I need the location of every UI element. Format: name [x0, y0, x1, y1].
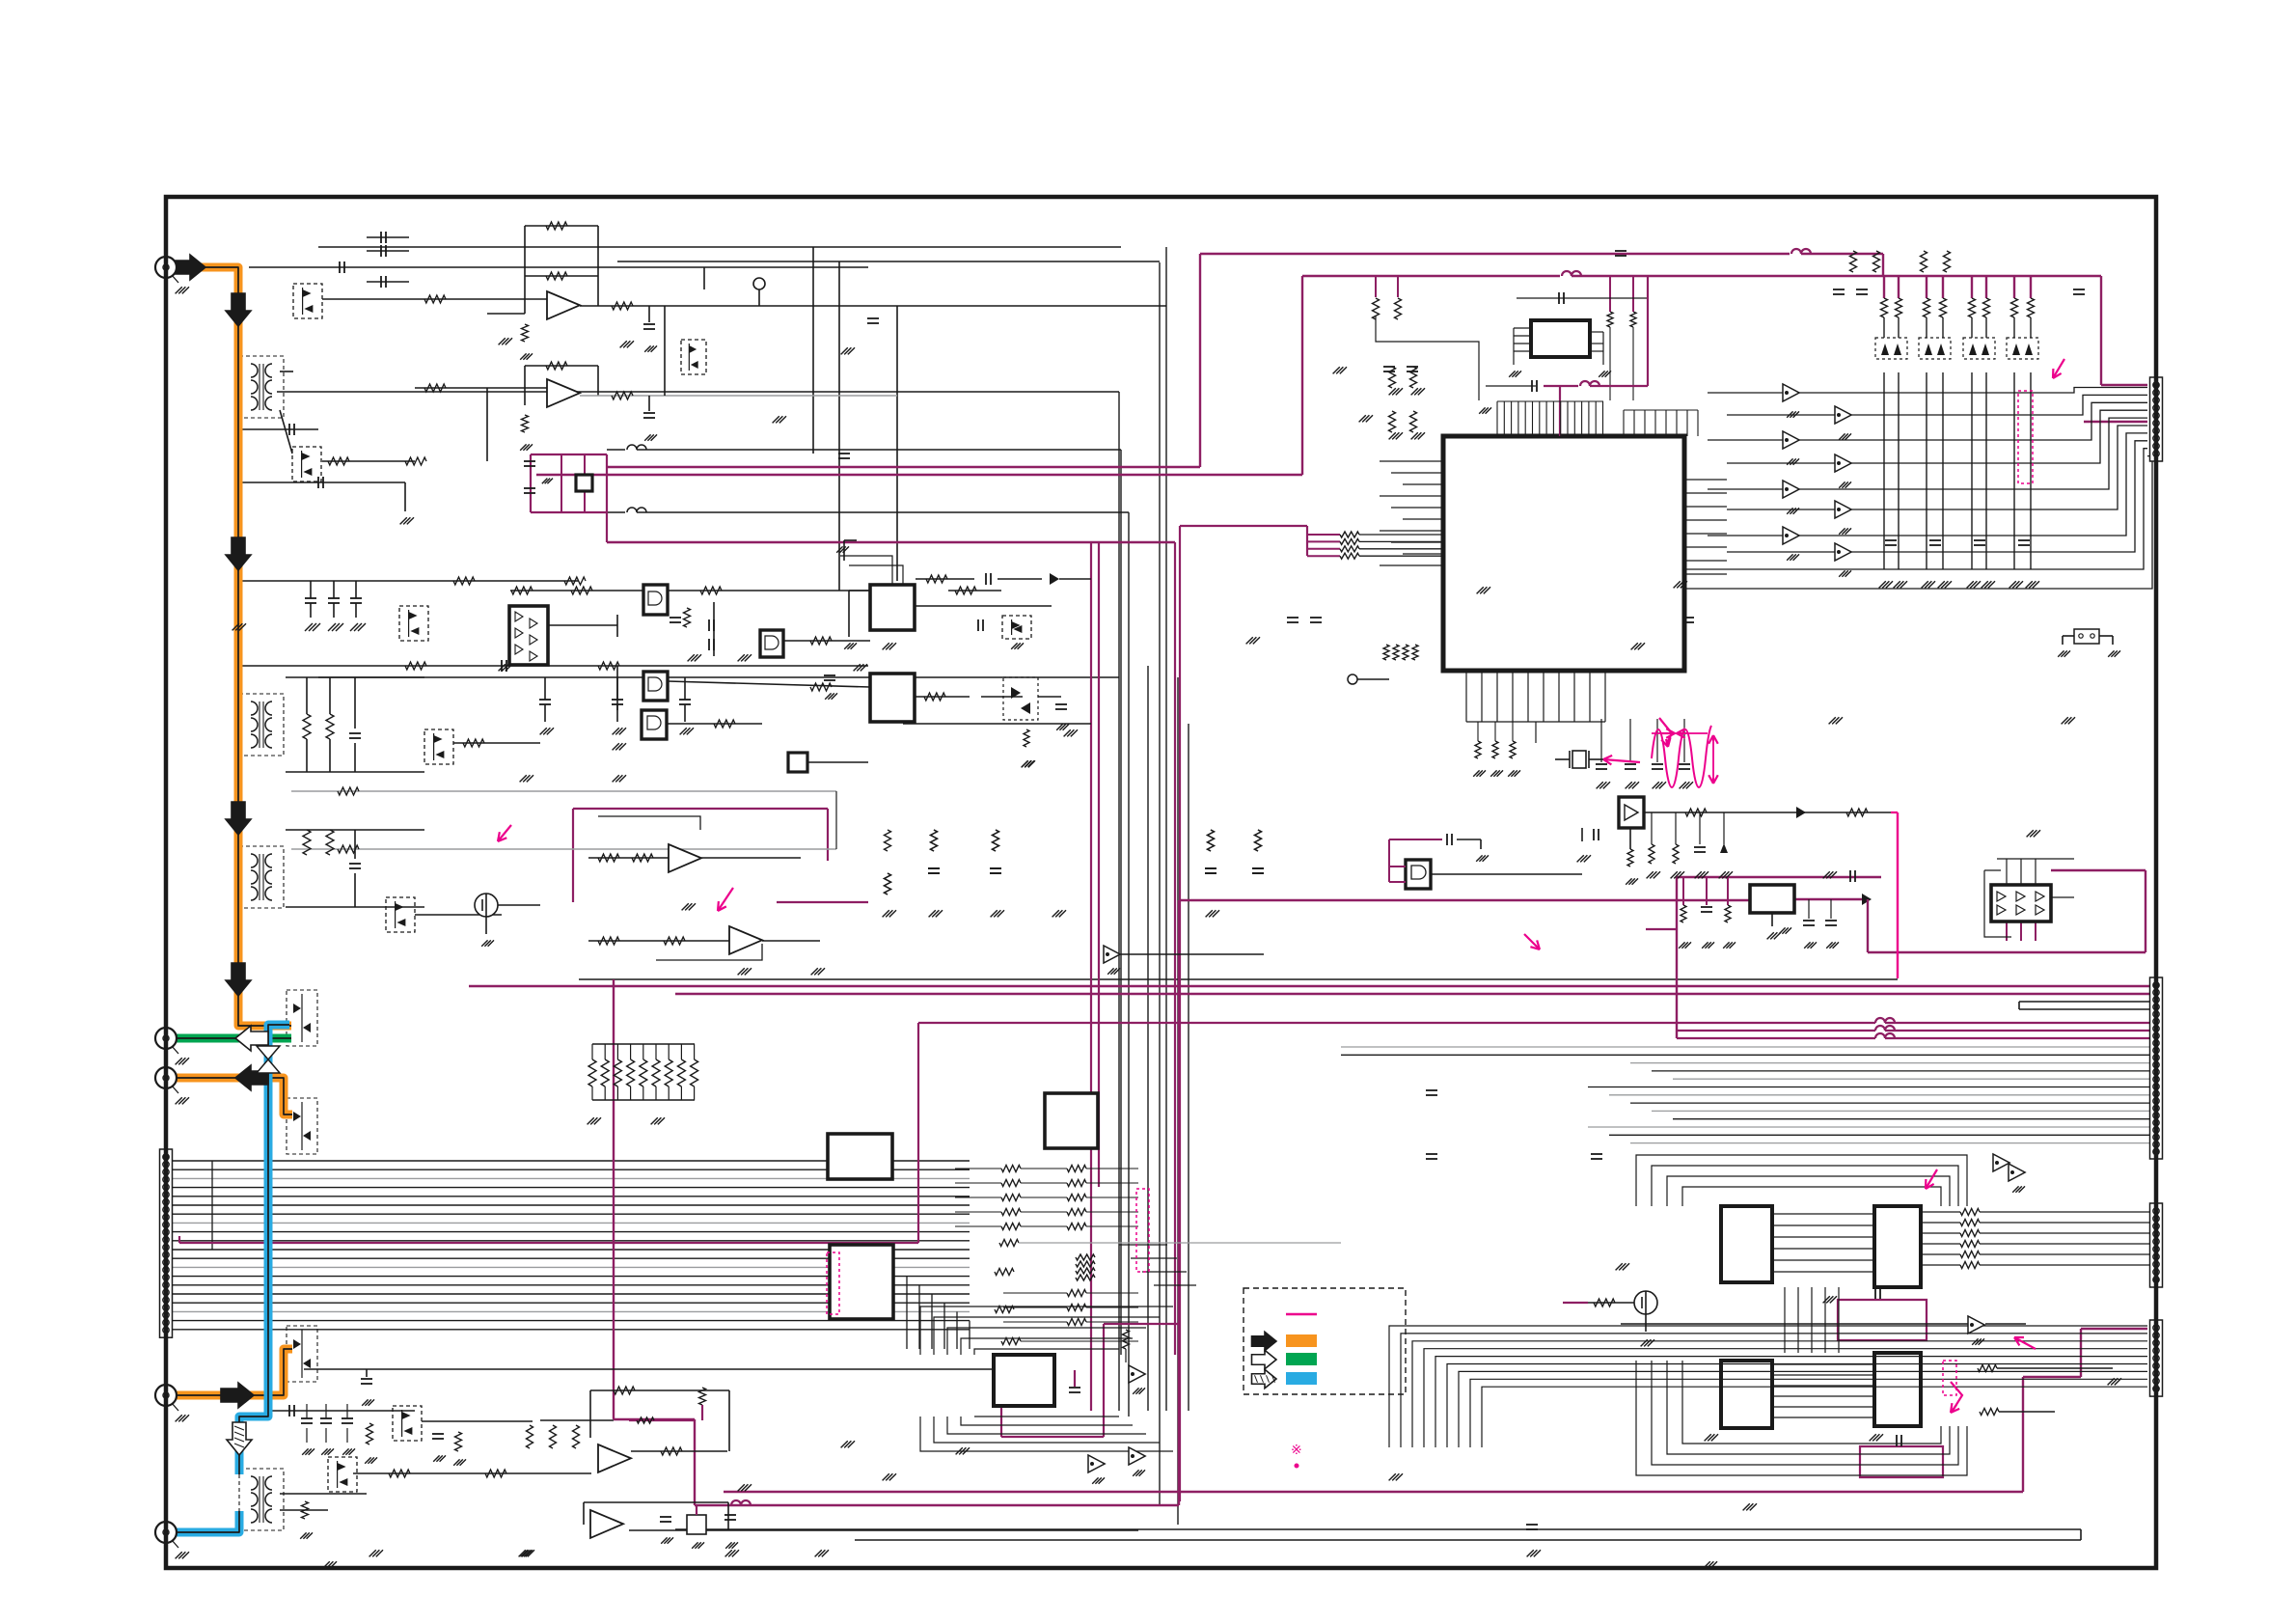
svg-text:※: ※	[1291, 1442, 1302, 1457]
